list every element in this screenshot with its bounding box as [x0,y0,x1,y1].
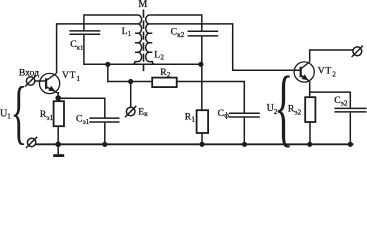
svg-text:Cф: Cф [218,108,230,120]
svg-text:Cэ1: Cэ1 [76,113,90,125]
svg-text:VT1: VT1 [62,70,81,83]
svg-text:U1: U1 [0,109,11,121]
svg-text:Cэ2: Cэ2 [334,95,348,107]
svg-text:L1: L1 [122,26,132,38]
svg-text:L2: L2 [154,50,164,62]
svg-text:{: { [11,73,28,152]
svg-text:R2: R2 [160,67,171,79]
svg-text:Cк1: Cк1 [70,39,83,51]
svg-text:VT2: VT2 [318,66,337,79]
svg-text:Cк2: Cк2 [171,27,185,40]
svg-text:M: M [138,0,147,10]
svg-text:R1: R1 [185,111,196,123]
svg-text:Вход: Вход [19,67,39,78]
svg-text:Rэ1: Rэ1 [40,109,54,122]
svg-text:Eк: Eк [138,107,148,118]
